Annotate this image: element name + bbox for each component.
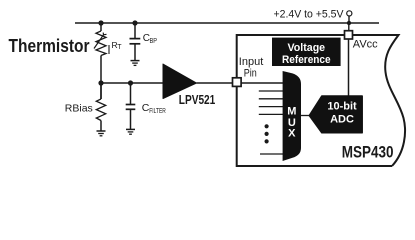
wire: thermistor to lower rail xyxy=(100,56,102,100)
MUX bottom input stub xyxy=(260,153,284,155)
ground under CBP xyxy=(131,60,140,62)
Voltage Reference box xyxy=(272,38,341,66)
svg-text:+2.4V to +5.5V: +2.4V to +5.5V xyxy=(274,9,345,21)
node: AVcc supply junction xyxy=(347,21,351,25)
wire: CBP branch top xyxy=(134,23,136,38)
svg-text:X: X xyxy=(288,127,296,139)
MUX input stub 2 xyxy=(259,98,284,100)
svg-text:Pin: Pin xyxy=(244,67,257,79)
MSP430 box outline with torn right edge xyxy=(237,35,405,166)
svg-text:10-bit: 10-bit xyxy=(327,101,357,113)
thermistor RT zigzag xyxy=(96,31,106,56)
capacitor CBP plates xyxy=(130,38,141,40)
svg-text:T: T xyxy=(117,44,122,51)
wire: op-amp output to input pin xyxy=(197,82,233,84)
wire: thermistor branch top xyxy=(100,23,102,31)
ADC block 10-bit xyxy=(309,96,362,133)
wire: rail to AVcc pin xyxy=(348,23,350,32)
svg-text:BP: BP xyxy=(150,36,158,45)
wire: lower rail to op-amp xyxy=(101,82,165,84)
svg-text:RBias: RBias xyxy=(65,102,93,114)
terminal: supply input circle xyxy=(347,11,352,16)
MUX input stub 3 xyxy=(259,106,284,108)
svg-text:LPV521: LPV521 xyxy=(179,93,216,107)
node: thermistor top junction xyxy=(98,20,103,25)
ground under RBias xyxy=(97,130,106,132)
svg-text:Input: Input xyxy=(239,56,263,68)
svg-text:M: M xyxy=(287,105,296,117)
wire: CBP to ground xyxy=(134,44,136,61)
resistor RBias zigzag xyxy=(96,99,105,121)
wire: RBias to ground xyxy=(100,121,102,131)
wire: terminal to rail xyxy=(348,16,350,23)
wire: AVcc to ADC xyxy=(348,39,350,97)
svg-text:Reference: Reference xyxy=(282,54,331,66)
ground under CFILTER xyxy=(126,128,135,130)
svg-text:AVcc: AVcc xyxy=(353,38,378,50)
wire: top supply rail xyxy=(75,22,379,24)
MUX input stub 1 xyxy=(259,90,284,92)
pin: AVcc square xyxy=(345,31,353,39)
wire: CFILTER branch top xyxy=(130,83,132,104)
svg-text:ADC: ADC xyxy=(330,114,354,126)
MUX block xyxy=(283,71,301,161)
ellipsis dots xyxy=(265,124,269,128)
MUX input stub 4 xyxy=(259,113,284,115)
node: CBP top junction xyxy=(132,20,137,25)
svg-text:Thermistor: Thermistor xyxy=(9,36,90,56)
thermistor RT right tick xyxy=(108,45,110,54)
svg-text:MSP430: MSP430 xyxy=(342,142,394,161)
svg-text:Voltage: Voltage xyxy=(288,42,326,54)
op-amp U1 LPV521 xyxy=(163,64,197,99)
capacitor CFILTER plates xyxy=(126,104,136,106)
thermistor RT diagonal stroke xyxy=(94,35,104,49)
wire: input pin to MUX xyxy=(241,82,284,84)
pin: Input Pin square xyxy=(233,78,242,87)
wire: MUX to ADC xyxy=(301,115,310,117)
node: CFILTER junction xyxy=(128,80,133,85)
svg-text:FILTER: FILTER xyxy=(149,108,166,115)
thermistor RT diagonal foot tick xyxy=(103,33,106,35)
node: RBias junction xyxy=(98,80,103,85)
wire: RBias branch top xyxy=(100,83,102,99)
wire: CFILTER to ground xyxy=(130,109,132,129)
